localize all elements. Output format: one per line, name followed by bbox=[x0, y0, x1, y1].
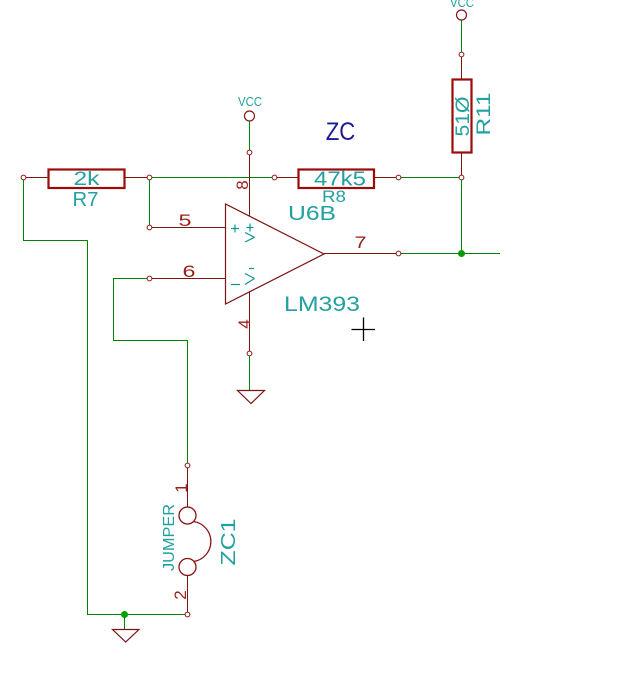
pin name plus (pin 5) bbox=[231, 225, 239, 233]
pin circle R11 pin 1 bbox=[459, 52, 464, 57]
power symbol VCC (top right) bbox=[450, 0, 474, 20]
wire output bbox=[401, 253, 500, 255]
jumper ZC1 bbox=[179, 463, 211, 617]
svg-text:6: 6 bbox=[183, 262, 196, 281]
svg-text:ZC1: ZC1 bbox=[218, 519, 240, 566]
svg-text:LM393: LM393 bbox=[284, 293, 360, 316]
pin circle R11 pin 2 bbox=[459, 175, 464, 180]
ground (op-amp) bbox=[238, 391, 265, 404]
wire bus R7 to R8 bbox=[152, 177, 273, 179]
svg-text:JUMPER: JUMPER bbox=[161, 504, 178, 571]
pin circle R8 pin 2 bbox=[396, 175, 401, 180]
pin 6 bbox=[147, 262, 226, 281]
svg-text:5: 5 bbox=[179, 211, 192, 230]
pin name minus (pin 6) bbox=[231, 284, 240, 286]
junction ground node bbox=[121, 611, 128, 618]
resistor R11 bbox=[453, 57, 472, 175]
crosshair cursor bbox=[352, 318, 376, 342]
wire R7 left down to bottom bbox=[24, 180, 186, 615]
pin 4 bbox=[235, 292, 254, 356]
svg-text:ZC: ZC bbox=[326, 118, 356, 146]
wire junction to ground bbox=[124, 617, 126, 629]
wire pin 6 to jumper bbox=[114, 279, 188, 463]
wire pin 4 to ground bbox=[249, 356, 251, 391]
wire R11 node down to output bbox=[461, 180, 463, 254]
svg-text:51Ø: 51Ø bbox=[453, 96, 474, 136]
pin name V- (pin 4) bbox=[245, 269, 255, 285]
svg-text:U6B: U6B bbox=[288, 203, 336, 225]
power symbol VCC (middle) bbox=[238, 94, 262, 121]
svg-text:VCC: VCC bbox=[238, 94, 262, 109]
wire VCC to pin 8 bbox=[249, 121, 251, 150]
resistor R8 bbox=[277, 170, 396, 189]
ground (bottom) bbox=[113, 630, 140, 643]
wire R7 right down to pin 5 bbox=[149, 180, 151, 225]
svg-text:VCC: VCC bbox=[450, 0, 474, 10]
svg-text:8: 8 bbox=[233, 180, 252, 189]
pin circle U6B pin 8 bbox=[247, 150, 252, 155]
svg-text:1: 1 bbox=[172, 483, 191, 492]
pin circle R7 pin 2 bbox=[147, 175, 152, 180]
pin circle R8 pin 1 bbox=[272, 175, 277, 180]
svg-text:R11: R11 bbox=[474, 93, 495, 136]
pin name V+ (pin 8) bbox=[245, 224, 255, 243]
svg-text:R7: R7 bbox=[73, 189, 99, 211]
wire VCC to R11 bbox=[461, 21, 463, 53]
pin circle R7 pin 1 bbox=[21, 175, 26, 180]
svg-text:7: 7 bbox=[355, 233, 367, 252]
svg-text:4: 4 bbox=[235, 319, 254, 328]
pin 5 bbox=[147, 211, 226, 230]
svg-text:2k: 2k bbox=[74, 169, 101, 190]
op-amp U6B bbox=[226, 204, 325, 304]
resistor R7 bbox=[26, 170, 147, 189]
junction output node bbox=[458, 250, 465, 257]
wire R8 to R11 bbox=[401, 177, 459, 179]
svg-text:2: 2 bbox=[171, 590, 190, 599]
pin 8 bbox=[233, 155, 252, 216]
pin 7 bbox=[324, 233, 401, 256]
